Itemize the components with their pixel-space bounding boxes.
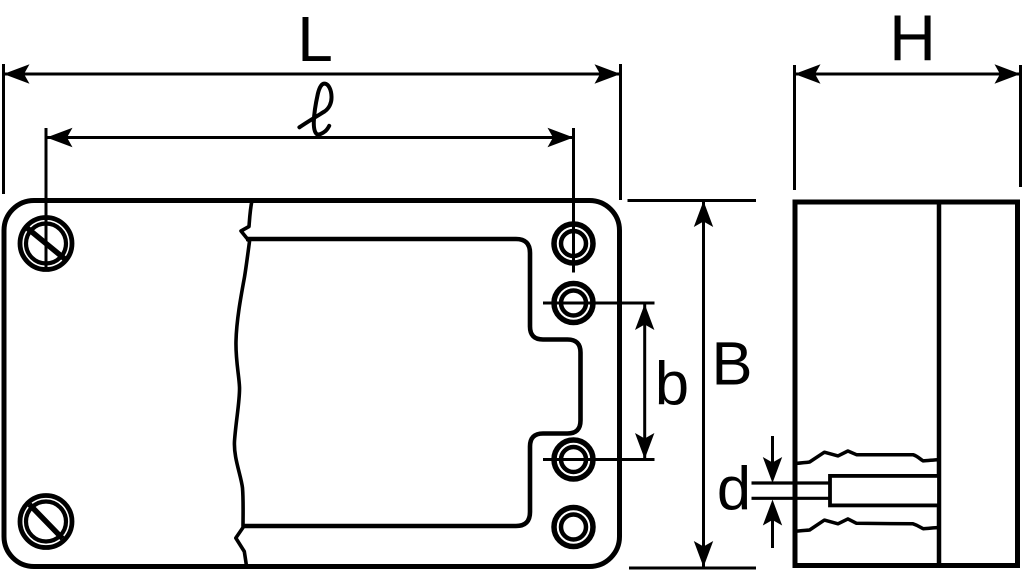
dimension b label: [655, 350, 689, 419]
svg-text:b: b: [655, 350, 689, 419]
extension line b top (through hole H2): [543, 302, 655, 305]
hole H3: [554, 440, 593, 479]
extension line l right (through hole H1): [572, 128, 575, 273]
dimension B label: [711, 330, 752, 399]
plate outline (front view): [4, 201, 620, 567]
dimension line b: [635, 304, 654, 459]
extension line H left: [793, 65, 796, 190]
svg-text:H: H: [889, 2, 936, 74]
dimension line B: [694, 201, 713, 567]
wire upper line: [752, 481, 832, 484]
side view inner edge line: [937, 202, 942, 566]
extension line L left: [2, 64, 5, 194]
extension line B bottom: [629, 567, 756, 570]
hole H1 (top-right): [554, 224, 593, 263]
screw S2 (bottom-left): [20, 496, 72, 548]
dimension d lower arrow: [763, 500, 782, 549]
dimension L label: [297, 3, 333, 75]
hole H2: [554, 284, 593, 323]
extension line l left (through screw S1): [45, 128, 48, 271]
side view body outline: [795, 202, 1018, 566]
dimension line H: [795, 64, 1021, 83]
dimension line l: [47, 128, 574, 147]
wire lower line: [752, 497, 832, 500]
break line (wavy): [234, 201, 252, 567]
hole H4 (bottom-right): [554, 508, 593, 547]
extension line H right: [1019, 65, 1022, 187]
dimension l (script ell) label: [299, 84, 331, 135]
svg-text:B: B: [711, 330, 752, 399]
dimension H label: [889, 2, 936, 74]
side view lower break line (wavy): [795, 519, 939, 531]
screw S1 (top-left): [20, 218, 72, 270]
dimension line L: [4, 64, 621, 83]
dimension d upper arrow: [763, 436, 782, 483]
terminal tab (side view): [830, 476, 939, 506]
svg-text:L: L: [297, 3, 333, 75]
recess outline (inner contour, front view): [243, 239, 581, 526]
dimension d label: [717, 455, 751, 524]
extension line L right: [619, 64, 622, 200]
extension line b bottom (through hole H3): [543, 458, 655, 461]
side view upper break line (wavy): [795, 451, 939, 464]
svg-text:d: d: [717, 455, 751, 524]
extension line B top: [628, 199, 757, 202]
